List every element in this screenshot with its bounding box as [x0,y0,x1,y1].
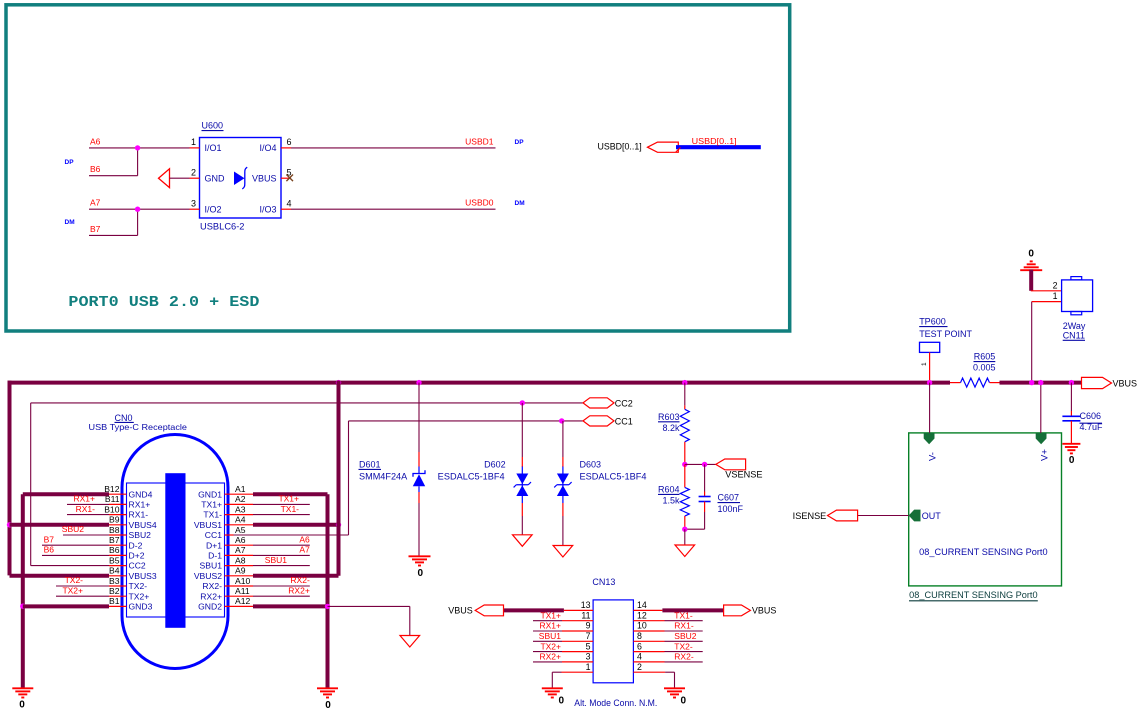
connector CN13 body [593,600,633,683]
svg-text:ESDALC5-1BF4: ESDALC5-1BF4 [438,471,505,481]
svg-text:GND: GND [205,174,226,184]
svg-text:TX2-: TX2- [129,581,148,591]
svg-text:1: 1 [191,137,196,147]
svg-text:VBUS: VBUS [1113,378,1138,388]
svg-text:0: 0 [418,568,424,579]
junction VBUS rail / CN0 A-side vertical [336,380,341,385]
CN11 pin1 wire down to VBUS rail [1031,302,1033,383]
svg-text:RX1+: RX1+ [129,500,151,510]
svg-text:USBD[0..1]: USBD[0..1] [598,141,642,151]
U600 pin 2 stub [190,177,200,179]
svg-text:B6: B6 [109,545,120,555]
wire net B6 joins A6 [89,175,138,177]
svg-text:D603: D603 [580,460,602,470]
input arrow port on U600 GND pin [159,169,170,188]
chassis ground under D602 [513,535,533,547]
wire SBU1 A8 [253,565,310,567]
svg-text:8.2k: 8.2k [662,423,680,433]
svg-text:A2: A2 [235,494,246,504]
svg-text:TX1+: TX1+ [278,494,299,504]
svg-text:SBU2: SBU2 [129,530,152,540]
wire CC1 from A5 [234,534,349,536]
wire VBUS4 B9 thick [10,523,110,527]
wire TX2+ B2 [56,595,109,597]
U600 pin 3 stub [190,208,200,210]
svg-text:B2: B2 [109,586,120,596]
svg-text:CC2: CC2 [615,398,633,408]
CN11 pin 1 wire [1032,301,1062,303]
resistor R605 0.005 shunt [950,382,961,384]
svg-text:VSENSE: VSENSE [725,469,762,479]
wire CC1 net horizontal [349,420,584,422]
TP600 wire to VBUS rail [929,352,931,382]
svg-text:6: 6 [637,641,642,651]
wire CC2 to D602 [521,403,523,457]
svg-text:GND1: GND1 [198,489,222,499]
svg-text:VBUS3: VBUS3 [129,571,157,581]
svg-text:SBU2: SBU2 [62,524,84,534]
svg-text:B1: B1 [109,596,120,606]
svg-text:4: 4 [287,198,292,208]
CN13 wire RX1- [633,630,664,632]
svg-text:DM: DM [515,200,525,207]
port CC2 [583,398,614,408]
bus USBD[0..1] thick blue [676,145,761,149]
svg-text:RX2+: RX2+ [540,652,562,662]
wire D603 to ground [562,516,564,546]
junction VBUS rail / D601 [416,380,421,385]
junction on DM net [135,207,140,212]
block pin OUT [909,510,921,522]
svg-text:TX2-: TX2- [65,575,84,585]
svg-text:A7: A7 [235,545,246,555]
svg-text:A10: A10 [235,576,251,586]
wire divider to ground [684,529,686,545]
junction V+ / VBUS rail [1038,380,1043,385]
GND right vertical wire [326,494,330,688]
svg-text:PORT0 USB 2.0 + ESD: PORT0 USB 2.0 + ESD [68,294,259,311]
svg-text:100nF: 100nF [718,504,744,514]
junction VSENSE node at R603/R604 [682,462,687,467]
svg-text:A4: A4 [235,515,246,525]
U600 internal diode symbol [234,172,245,186]
svg-text:RX2+: RX2+ [200,591,222,601]
svg-text:RX2+: RX2+ [288,585,310,595]
svg-text:0: 0 [681,696,687,707]
svg-text:SBU1: SBU1 [539,631,561,641]
svg-text:OUT: OUT [922,511,942,521]
wire SBU2 B8 [63,534,109,536]
ground symbol 0 under D601 [409,555,431,557]
svg-text:1: 1 [586,662,591,672]
svg-text:ESDALC5-1BF4: ESDALC5-1BF4 [580,471,647,481]
svg-text:I/O3: I/O3 [259,205,276,215]
svg-text:B3: B3 [109,576,120,586]
svg-text:TX1-: TX1- [281,504,300,514]
svg-text:D-2: D-2 [129,540,143,550]
wire RX2+ A11 [253,595,310,597]
wire VSENSE node to port [685,463,716,465]
GND left vertical wire [21,494,25,688]
svg-text:B7: B7 [90,224,101,234]
VBUS rail thick wire [8,381,951,385]
svg-text:A6: A6 [235,535,246,545]
wire net B7 joins A7 [89,234,138,236]
wire D601 to ground [418,503,420,556]
junction VBUS left at B9 [7,522,12,527]
wire D602 to ground [521,516,523,535]
svg-text:USB Type-C Receptacle: USB Type-C Receptacle [89,422,188,432]
svg-text:CN13: CN13 [592,577,615,587]
svg-text:ISENSE: ISENSE [793,511,827,521]
svg-text:I/O2: I/O2 [205,205,222,215]
svg-text:RX2-: RX2- [202,581,222,591]
bus entry tick [676,148,681,153]
svg-text:TP600: TP600 [919,317,946,327]
svg-text:D602: D602 [484,460,506,470]
resistor R604 1.5k [684,464,686,487]
wire net USBD0 from U600 pin4 [291,208,496,210]
svg-text:A9: A9 [235,566,246,576]
svg-text:SMM4F24A: SMM4F24A [359,471,407,481]
svg-text:I/O4: I/O4 [259,143,276,153]
wire VBUS rail to V+ pin [1040,383,1042,433]
svg-text:6: 6 [287,137,292,147]
svg-text:USBD[0..1]: USBD[0..1] [692,136,737,146]
svg-text:TX1-: TX1- [203,510,222,520]
junction GND right at A12 [325,604,330,609]
svg-text:A12: A12 [235,596,251,606]
wire C607 bottom to R604 bottom [685,528,705,530]
junction CC2 / D602 [520,400,525,405]
svg-text:R604: R604 [658,485,680,495]
svg-text:VBUS4: VBUS4 [129,520,157,530]
svg-text:A3: A3 [235,504,246,514]
wire VBUS to R603 [684,383,686,406]
svg-text:CC2: CC2 [129,561,146,571]
wire VBUS3 B4 thick [10,574,110,578]
wire D-1 A7 [253,554,310,556]
svg-text:B7: B7 [109,535,120,545]
svg-text:TX2+: TX2+ [62,585,83,595]
svg-text:B5: B5 [109,555,120,565]
CN13 wire RX2+ [533,661,562,663]
svg-text:B4: B4 [109,566,120,576]
svg-text:B7: B7 [44,534,55,544]
TVS diode D602 ESDALC5-1BF4 [521,457,523,467]
chassis ground under D603 [553,546,573,558]
svg-text:TX2+: TX2+ [129,591,150,601]
CN13 wire SBU1 [533,640,562,642]
svg-text:R603: R603 [658,412,680,422]
svg-text:A7: A7 [299,545,310,555]
svg-text:USBLC6-2: USBLC6-2 [200,222,245,232]
svg-text:4: 4 [637,652,642,662]
junction on DP net [135,145,140,150]
wire net A7 to U600 pin3 [89,208,190,210]
svg-text:9: 9 [586,621,591,631]
U600 pin 4 stub [281,208,291,210]
svg-text:I/O1: I/O1 [205,143,222,153]
svg-text:VBUS: VBUS [252,174,277,184]
svg-text:5: 5 [586,641,591,651]
IC U600 USBLC6-2 body [200,138,282,219]
CN13 wire RX1+ [533,630,562,632]
U600 pin 6 stub [281,147,291,149]
svg-text:C607: C607 [718,493,740,503]
ground symbol 0 left of CN0 [12,687,33,689]
connector CN0 inner pin box [127,483,225,617]
wire VBUS to D601 [418,383,420,452]
svg-text:B6: B6 [90,164,101,174]
connector CN0 capsule outline [122,435,228,669]
CN13 pin13 VBUS wire [504,608,564,612]
svg-text:V+: V+ [1040,449,1051,461]
svg-text:VBUS: VBUS [448,606,473,616]
TP600 pad [920,342,940,352]
no-connect X on U600 pin 5 [286,175,293,182]
block pin V+ [1036,433,1047,444]
svg-text:SBU2: SBU2 [674,631,696,641]
svg-text:B9: B9 [109,515,120,525]
junction TP600 / V- on rail [927,380,932,385]
svg-text:A5: A5 [235,525,246,535]
svg-text:D+2: D+2 [129,551,145,561]
ground symbol 0 CN13 right [664,687,685,689]
svg-text:A1: A1 [235,484,246,494]
chassis ground under R604 [675,545,695,557]
svg-text:SBU1: SBU1 [265,555,287,565]
svg-text:CC1: CC1 [615,416,633,426]
svg-text:C606: C606 [1080,411,1102,421]
svg-text:D601: D601 [359,460,381,470]
svg-text:08_CURRENT SENSING Port0: 08_CURRENT SENSING Port0 [919,547,1047,557]
svg-text:B8: B8 [109,525,120,535]
svg-text:GND4: GND4 [129,489,153,499]
svg-text:USBD1: USBD1 [465,136,494,146]
CN11 ground thick stub [1029,270,1033,291]
svg-text:3: 3 [191,198,196,208]
bus port arrow USBD[0..1] [648,142,679,152]
svg-text:8: 8 [637,631,642,641]
svg-text:1: 1 [1053,291,1058,301]
block pin V- [924,433,935,444]
svg-text:CN11: CN11 [1063,330,1085,340]
svg-text:VBUS: VBUS [752,606,777,616]
svg-text:A11: A11 [235,586,250,596]
svg-text:RX2-: RX2- [290,575,310,585]
CN13 wire TX2- [633,651,664,653]
svg-text:08_CURRENT SENSING Port0: 08_CURRENT SENSING Port0 [909,590,1037,600]
svg-text:GND3: GND3 [129,602,153,612]
svg-text:DP: DP [515,139,525,146]
svg-text:TX2+: TX2+ [540,641,561,651]
wire VBUS1 A4 thick [253,523,339,527]
svg-text:TEST POINT: TEST POINT [919,329,972,339]
svg-text:B6: B6 [44,545,55,555]
wire TX1- A3 [253,514,310,516]
CN13 wire RX2- [633,661,664,663]
CN11 pin 2 wire [1031,290,1062,292]
VBUS rail left vertical [8,381,12,576]
wire A12 to chassis ground [328,605,410,607]
svg-text:VBUS2: VBUS2 [194,571,222,581]
port VBUS right end of rail [1082,377,1112,388]
svg-text:2: 2 [637,662,642,672]
svg-text:0.005: 0.005 [973,363,996,373]
svg-text:Alt. Mode Conn. N.M.: Alt. Mode Conn. N.M. [574,698,657,708]
port ISENSE [828,510,858,521]
port VBUS right of CN13 [724,605,751,616]
svg-text:SBU1: SBU1 [200,561,223,571]
capacitor C607 100nF [704,464,706,491]
wire RX2- A10 [253,585,310,587]
wire net USBD1 from U600 pin6 [291,147,496,149]
svg-text:7: 7 [586,631,591,641]
sheet outline PORT0 USB 2.0 + ESD block [6,5,790,331]
wire GND4 B12 thick [23,492,109,496]
junction GND left at B1 [20,604,25,609]
port VBUS left of CN13 [475,605,503,616]
wire RX1+ B11 [67,503,109,505]
wire TX1+ A2 [253,503,310,505]
wire CC2 net horizontal [31,402,583,404]
svg-text:R605: R605 [974,352,996,362]
wire RX1- B10 [67,514,109,516]
port VSENSE [716,459,746,470]
svg-text:VBUS1: VBUS1 [194,520,222,530]
junction CN11 / VBUS rail [1029,380,1034,385]
capacitor C606 4.7uF [1070,383,1072,411]
wire D-2 B7 [42,544,109,546]
chassis ground below A12 [400,636,420,648]
svg-text:GND2: GND2 [198,602,222,612]
svg-text:0: 0 [1069,455,1075,466]
CN13 wire TX1- [633,620,664,622]
svg-text:D+1: D+1 [206,540,222,550]
port CC1 [583,416,614,426]
junction VSENSE node at C607 [702,462,707,467]
svg-text:D-1: D-1 [208,551,222,561]
ground symbol 0 CN13 left [542,687,563,689]
wire CC2 to B5 [31,565,109,567]
svg-text:0: 0 [325,700,331,711]
svg-text:B10: B10 [104,504,120,514]
svg-text:1.5k: 1.5k [662,495,680,505]
ground symbol 0 under C606 [1062,443,1080,445]
svg-text:RX2-: RX2- [674,652,694,662]
svg-text:0: 0 [559,696,565,707]
diode D601 SMM4F24A zener [418,452,420,467]
wire D+2 B6 [42,554,109,556]
svg-text:0: 0 [1028,249,1034,260]
svg-text:CC1: CC1 [205,530,222,540]
svg-text:TX1+: TX1+ [201,500,222,510]
CN13 wire TX1+ [533,620,562,622]
wire CC1 to D603 [562,421,564,457]
wire GND2 A12 thick [253,604,328,608]
svg-text:11: 11 [581,610,590,620]
wire TX2- B3 [56,585,109,587]
wire VBUS rail to V- pin [929,383,931,433]
U600 pin 5 stub [281,177,291,179]
CN13 pin14 VBUS wire [633,609,662,611]
U600 pin 1 stub [190,147,200,149]
wire D+1 A6 [253,544,310,546]
CN13 pin1 ground wire [562,671,594,673]
svg-text:A6: A6 [90,136,101,146]
wire ISENSE to OUT [858,515,909,517]
svg-text:U600: U600 [202,121,224,131]
svg-text:12: 12 [637,610,647,620]
svg-text:14: 14 [637,600,647,610]
wire VBUS2 A9 thick [253,574,339,578]
CN13 wire SBU2 [633,640,664,642]
svg-text:RX1-: RX1- [76,504,96,514]
svg-text:V-: V- [928,452,939,461]
wire net A6 to U600 pin1 [89,147,190,149]
svg-text:TX2-: TX2- [674,641,693,651]
svg-text:A6: A6 [299,534,310,544]
svg-text:1: 1 [921,362,928,366]
svg-text:DM: DM [65,219,75,226]
svg-text:2: 2 [191,167,196,177]
wire GND1 A1 thick [253,492,328,496]
svg-text:2: 2 [1053,280,1058,290]
svg-text:3: 3 [586,652,591,662]
svg-text:10: 10 [637,621,647,631]
svg-text:RX1-: RX1- [129,510,149,520]
svg-text:RX1+: RX1+ [74,494,96,504]
VBUS right vertical wire A4-A9 [337,381,341,576]
svg-text:USBD0: USBD0 [465,198,494,208]
connector CN0 center tongue bar [165,473,185,628]
wire GND3 B1 thick [23,604,109,608]
junction CC1 / D603 [559,418,564,423]
svg-text:4.7uF: 4.7uF [1080,422,1104,432]
svg-text:A7: A7 [90,198,101,208]
CN13 pin2 ground wire [633,671,665,673]
svg-text:RX1-: RX1- [674,621,694,631]
connector CN11 body [1062,280,1093,312]
TVS diode D603 ESDALC5-1BF4 [562,457,564,467]
ground symbol 0 right of CN0 [317,687,338,689]
junction C606 / VBUS rail [1069,380,1074,385]
junction A4 VBUS vertical [336,522,341,527]
svg-text:RX1+: RX1+ [540,621,562,631]
svg-text:13: 13 [581,600,591,610]
junction VBUS rail / R603 [682,380,687,385]
junction bottom of divider [682,527,687,532]
hier block 08_CURRENT SENSING Port0 body [909,433,1062,586]
svg-text:0: 0 [19,700,25,711]
resistor R603 8.2k [684,405,686,409]
svg-text:DP: DP [65,159,75,166]
svg-text:A8: A8 [235,555,246,565]
CN13 wire TX2+ [533,651,562,653]
